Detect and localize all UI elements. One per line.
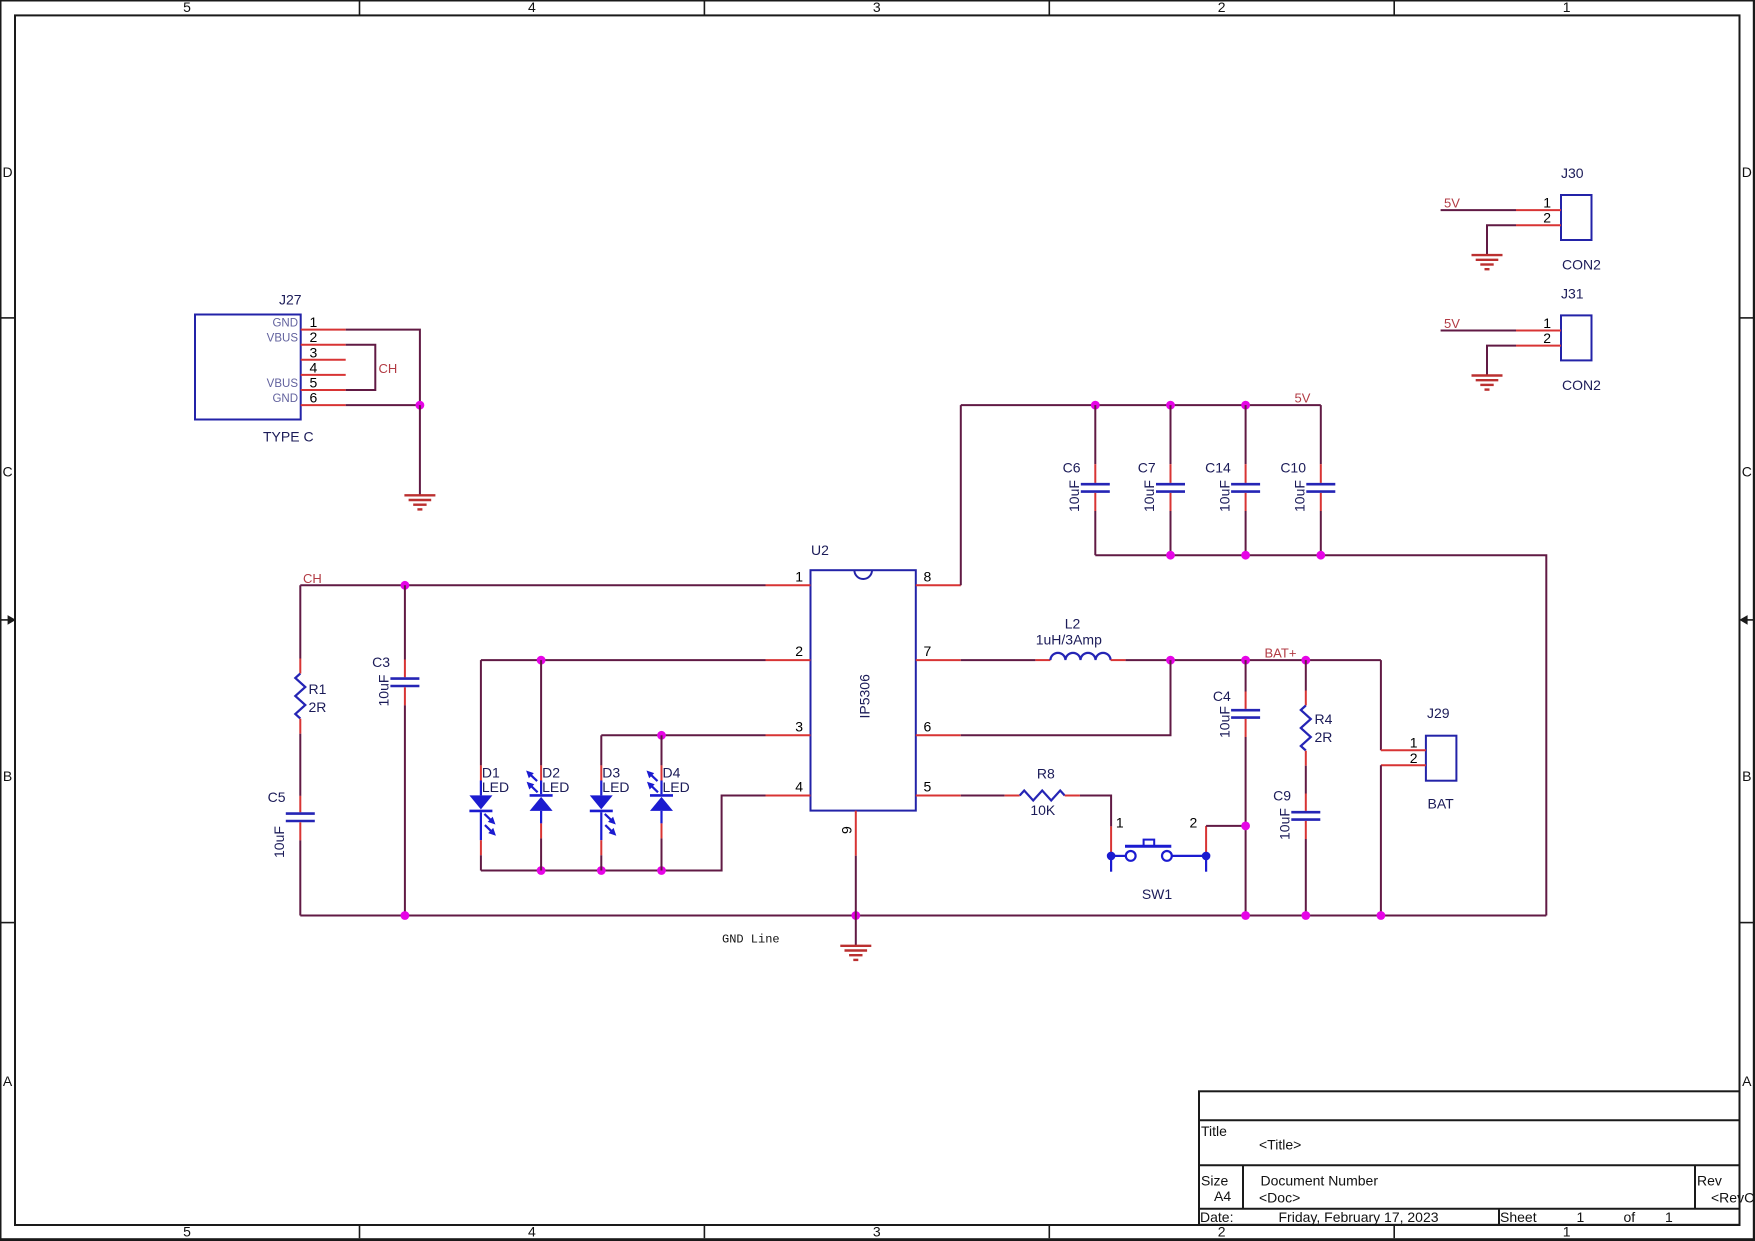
SW1 pin number 2 [1190, 814, 1198, 830]
J27 value label TYPE C [263, 429, 314, 445]
C5 reference designator label [268, 789, 286, 805]
svg-text:BAT: BAT [1428, 796, 1455, 812]
capacitor C5 [286, 796, 315, 841]
J27 pin number 6 [310, 390, 318, 406]
svg-text:C: C [2, 464, 12, 480]
J27 pin 5 stub [301, 389, 346, 391]
svg-text:of: of [1624, 1209, 1636, 1225]
svg-text:4: 4 [528, 1223, 536, 1239]
svg-text:4: 4 [528, 0, 536, 15]
R4 reference designator label [1315, 711, 1333, 727]
junction 5V rail / C7 [1166, 401, 1175, 410]
svg-text:2: 2 [1410, 750, 1418, 766]
junction pin2 line / D2 [537, 656, 546, 665]
U2 reference designator label [811, 542, 829, 558]
net label CH (main) [303, 571, 322, 586]
J27 pin number 1 [310, 314, 318, 330]
junction 5V rail / C6 [1091, 401, 1100, 410]
svg-text:8: 8 [924, 568, 932, 584]
svg-text:1: 1 [1116, 814, 1124, 830]
ground symbol (J31) [1472, 376, 1503, 390]
capacitor C7 [1156, 405, 1185, 555]
net label 5V (at J31) [1444, 316, 1460, 331]
C4 reference designator label [1213, 688, 1231, 704]
capacitor C10 [1306, 405, 1335, 555]
J31 pin 1 stub [1516, 330, 1561, 332]
net label BAT+ [1265, 645, 1297, 660]
U2 pin 5 stub [916, 795, 961, 797]
svg-text:J30: J30 [1561, 165, 1584, 181]
J29 pin number 1 [1410, 735, 1418, 751]
svg-text:3: 3 [873, 1223, 881, 1239]
D4 reference designator label [663, 764, 681, 780]
SW1 pin 2 stub [1205, 826, 1207, 852]
J27 reference designator label [279, 292, 302, 308]
J29 pin 2 stub [1381, 764, 1426, 766]
junction LED bus / D3 [597, 866, 606, 875]
U2 pin 1 stub [766, 584, 811, 586]
svg-text:TYPE C: TYPE C [263, 429, 314, 445]
svg-text:10K: 10K [1030, 802, 1056, 818]
svg-text:<Doc>: <Doc> [1259, 1190, 1300, 1206]
wire U2 pin4 to LED cathode bus [481, 796, 766, 871]
D1 reference designator label [482, 764, 500, 780]
junction J27 GND node [416, 401, 425, 410]
D2 value label LED [542, 779, 569, 795]
wire 5V rail [961, 404, 1321, 406]
J27 pin name GND (pin 1) [272, 318, 298, 330]
svg-text:LED: LED [482, 779, 509, 795]
svg-text:Date:: Date: [1200, 1209, 1233, 1225]
wire J29 pin2 down to GND rail [1380, 765, 1382, 915]
U2 pin number 9 (rotated) [839, 826, 855, 834]
svg-text:C7: C7 [1138, 460, 1156, 476]
svg-text:B: B [3, 768, 12, 784]
svg-text:10uF: 10uF [1216, 480, 1232, 512]
svg-text:1: 1 [1543, 315, 1551, 331]
svg-text:Title: Title [1201, 1123, 1227, 1139]
C14 value label 10uF (rotated) [1216, 480, 1232, 512]
D2 reference designator label [542, 764, 560, 780]
svg-text:2: 2 [1543, 330, 1551, 346]
switch SW1 [1107, 840, 1211, 872]
J27 pin name GND (pin 6) [272, 393, 298, 405]
D3 reference designator label [602, 764, 620, 780]
svg-text:C6: C6 [1063, 460, 1081, 476]
svg-text:3: 3 [873, 0, 881, 15]
C7 value label 10uF (rotated) [1141, 480, 1157, 512]
ground symbol (J27) [404, 495, 435, 509]
net label 5V (rail) [1295, 390, 1311, 405]
J29 pin 1 stub [1381, 749, 1426, 751]
junction BAT+ / R4 [1301, 656, 1310, 665]
capacitor C9 [1291, 794, 1320, 916]
svg-text:J29: J29 [1427, 705, 1450, 721]
svg-text:<Title>: <Title> [1259, 1137, 1301, 1153]
U2 pin 3 stub [766, 734, 811, 736]
C3 value label 10uF (rotated) [376, 675, 392, 707]
svg-text:2: 2 [795, 643, 803, 659]
LED D4 [647, 735, 674, 870]
C14 reference designator label [1205, 460, 1231, 476]
wire CH net to U2 pin1 [300, 584, 765, 586]
svg-text:C: C [1742, 464, 1752, 480]
J30 pin 2 stub [1516, 224, 1561, 226]
J27 pin number 4 [310, 359, 318, 375]
SW1 reference designator label [1142, 886, 1173, 902]
wire CH down to R1 [299, 585, 301, 658]
svg-text:5V: 5V [1444, 316, 1460, 331]
wire R4 to C9 [1305, 766, 1307, 794]
svg-text:1: 1 [1665, 1209, 1673, 1225]
resistor R8 [1005, 791, 1080, 801]
svg-text:10uF: 10uF [1141, 480, 1157, 512]
svg-text:BAT+: BAT+ [1265, 645, 1297, 660]
svg-text:GND: GND [272, 393, 298, 405]
wire U2 pin9 to GND rail [855, 856, 857, 916]
svg-text:J31: J31 [1561, 285, 1584, 301]
J31 reference designator label [1561, 285, 1584, 301]
L2 reference designator label [1065, 615, 1081, 631]
svg-text:C4: C4 [1213, 688, 1231, 704]
svg-text:1: 1 [310, 314, 318, 330]
wire U2 pin2 to D1/D2 anodes [481, 659, 766, 661]
U2 pin 9 stub [855, 811, 857, 856]
U2 pin number 1 [795, 568, 803, 584]
J29 value label BAT [1428, 796, 1455, 812]
svg-text:5V: 5V [1444, 196, 1460, 211]
svg-text:6: 6 [924, 718, 932, 734]
svg-text:5V: 5V [1295, 390, 1311, 405]
svg-text:5: 5 [924, 779, 932, 795]
svg-text:C5: C5 [268, 789, 286, 805]
svg-text:1uH/3Amp: 1uH/3Amp [1036, 632, 1102, 648]
svg-text:2: 2 [1218, 0, 1226, 15]
SW1 pin number 1 [1116, 814, 1124, 830]
connector J31 (CON2) body [1561, 315, 1592, 360]
J30 pin 1 stub [1516, 209, 1561, 211]
wire GND rail [300, 915, 1546, 917]
resistor R4 [1301, 660, 1311, 766]
J30 pin number 2 [1543, 210, 1551, 226]
U2 pin number 3 [795, 718, 803, 734]
wire J27 pin1 to GND node [346, 330, 420, 406]
J27 pin number 5 [310, 375, 318, 391]
net note GND Line [722, 932, 780, 946]
svg-text:1: 1 [1577, 1209, 1585, 1225]
svg-text:IP5306: IP5306 [857, 674, 873, 719]
svg-text:7: 7 [924, 643, 932, 659]
wire U2 pin3 to D3/D4 [601, 734, 765, 736]
U2 pin number 4 [795, 779, 803, 795]
capacitor C4 [1231, 660, 1260, 915]
U2 pin number 7 [924, 643, 932, 659]
svg-text:3: 3 [310, 344, 318, 360]
ground symbol (GND rail) [840, 946, 871, 960]
junction cap bus / C14 [1241, 551, 1250, 560]
SW1 pin 1 stub [1110, 826, 1112, 852]
J27 pin number 3 [310, 344, 318, 360]
L2 value label 1uH/3Amp [1036, 632, 1102, 648]
C5 value label 10uF (rotated) [271, 826, 287, 858]
svg-text:A: A [1742, 1073, 1752, 1089]
C6 value label 10uF (rotated) [1066, 480, 1082, 512]
svg-text:10uF: 10uF [1066, 480, 1082, 512]
wire GND rail to ground symbol [855, 916, 857, 946]
svg-text:LED: LED [542, 779, 569, 795]
svg-text:D: D [2, 164, 12, 180]
U2 value label IP5306 (rotated) [857, 674, 873, 719]
svg-text:CH: CH [303, 571, 322, 586]
J27 pin name VBUS (pin 5) [267, 378, 299, 390]
C9 value label 10uF (rotated) [1277, 808, 1293, 840]
svg-text:2R: 2R [309, 699, 327, 715]
connector J29 (BAT) body [1426, 736, 1457, 781]
junction GND rail / U2 pin9 [851, 911, 860, 920]
svg-text:Sheet: Sheet [1500, 1209, 1537, 1225]
svg-text:Friday, February 17, 2023: Friday, February 17, 2023 [1279, 1209, 1439, 1225]
svg-text:2: 2 [310, 329, 318, 345]
wire GND node down to ground [419, 405, 421, 495]
C10 value label 10uF (rotated) [1292, 480, 1308, 512]
R8 reference designator label [1037, 766, 1055, 782]
connector J30 (CON2) body [1561, 195, 1592, 240]
svg-text:D: D [1742, 164, 1752, 180]
wire capacitor bottom bus [1095, 555, 1546, 915]
svg-text:2R: 2R [1315, 729, 1333, 745]
svg-text:R8: R8 [1037, 766, 1055, 782]
svg-text:U2: U2 [811, 542, 829, 558]
junction cap bus / C10 [1316, 551, 1325, 560]
svg-text:C3: C3 [372, 654, 390, 670]
J31 pin number 2 [1543, 330, 1551, 346]
connector J27 (TYPE C) body [195, 315, 301, 420]
J31 value label CON2 [1562, 377, 1601, 393]
resistor R1 [295, 659, 305, 734]
svg-text:<RevCode>: <RevCode> [1711, 1190, 1755, 1206]
svg-text:J27: J27 [279, 292, 302, 308]
junction cap bus / C7 [1166, 551, 1175, 560]
wire J27 pin6 to GND node [346, 404, 420, 406]
svg-text:9: 9 [839, 826, 855, 834]
R8 value label 10K [1030, 802, 1056, 818]
svg-text:5: 5 [183, 1223, 191, 1239]
svg-text:A4: A4 [1214, 1188, 1231, 1204]
junction GND rail / C9 [1301, 911, 1310, 920]
LED D3 [590, 735, 617, 870]
svg-text:3: 3 [795, 718, 803, 734]
U2 pin number 6 [924, 718, 932, 734]
U2 pin 8 stub [916, 584, 961, 586]
U2 pin 4 stub [766, 795, 811, 797]
C10 reference designator label [1280, 460, 1306, 476]
D4 value label LED [663, 779, 690, 795]
svg-text:10uF: 10uF [271, 826, 287, 858]
J27 pin 1 stub [301, 329, 346, 331]
J30 pin number 1 [1543, 195, 1551, 211]
svg-text:1: 1 [795, 568, 803, 584]
wire 5V to J31 pin1 [1441, 330, 1516, 332]
J29 reference designator label [1427, 705, 1450, 721]
svg-text:2: 2 [1543, 210, 1551, 226]
J27 pin 6 stub [301, 404, 346, 406]
svg-text:CON2: CON2 [1562, 257, 1601, 273]
junction SW1 pin2 / C4 column [1241, 822, 1250, 831]
junction LED bus / D2 [537, 866, 546, 875]
J31 pin number 1 [1543, 315, 1551, 331]
wire L2 to BAT+ corner [1126, 659, 1381, 661]
svg-text:CH: CH [379, 361, 398, 376]
U2 pin 2 stub [766, 659, 811, 661]
svg-text:10uF: 10uF [1292, 480, 1308, 512]
junction GND rail / C4 [1241, 911, 1250, 920]
net label CH (at J27) [379, 361, 398, 376]
junction CH / C3 [401, 581, 410, 590]
svg-text:VBUS: VBUS [267, 333, 299, 345]
svg-text:1: 1 [1410, 735, 1418, 751]
svg-text:Document Number: Document Number [1261, 1173, 1379, 1189]
wire J30 pin2 to ground [1487, 225, 1516, 255]
J27 pin name VBUS (pin 2) [267, 333, 299, 345]
svg-text:4: 4 [310, 359, 318, 375]
R4 value label 2R [1315, 729, 1333, 745]
svg-text:VBUS: VBUS [267, 378, 299, 390]
J27 pin 2 stub [301, 344, 346, 346]
svg-text:GND: GND [272, 318, 298, 330]
wire R1 to C5 [299, 734, 301, 796]
svg-text:R4: R4 [1315, 711, 1333, 727]
svg-text:LED: LED [602, 779, 629, 795]
C7 reference designator label [1138, 460, 1156, 476]
svg-text:B: B [1742, 768, 1751, 784]
R1 value label 2R [309, 699, 327, 715]
J30 value label CON2 [1562, 257, 1601, 273]
ground symbol (J30) [1472, 255, 1503, 269]
svg-text:10uF: 10uF [1216, 706, 1232, 738]
U2 pin 7 stub [916, 659, 961, 661]
wire SW1 pin2 to C4 column [1206, 825, 1246, 827]
svg-text:C14: C14 [1205, 460, 1231, 476]
wire U2 pin5 to R8 [961, 795, 1005, 797]
svg-text:Rev: Rev [1697, 1173, 1722, 1189]
svg-text:C10: C10 [1280, 460, 1306, 476]
svg-text:1: 1 [1563, 0, 1571, 15]
junction LED bus / D4 [657, 866, 666, 875]
U2 pin number 5 [924, 779, 932, 795]
R1 reference designator label [309, 681, 327, 697]
C6 reference designator label [1063, 460, 1081, 476]
svg-text:C9: C9 [1273, 788, 1291, 804]
wire C5 to GND rail [299, 840, 301, 915]
J29 pin number 2 [1410, 750, 1418, 766]
svg-text:Size: Size [1201, 1173, 1228, 1189]
svg-text:10uF: 10uF [376, 675, 392, 707]
capacitor C3 [390, 585, 419, 915]
C9 reference designator label [1273, 788, 1291, 804]
junction 5V rail / C14 [1241, 401, 1250, 410]
J31 pin 2 stub [1516, 345, 1561, 347]
junction BAT+ / C4 [1241, 656, 1250, 665]
C4 value label 10uF (rotated) [1216, 706, 1232, 738]
svg-text:6: 6 [310, 390, 318, 406]
wire J31 pin2 to ground [1487, 346, 1516, 376]
svg-text:5: 5 [183, 0, 191, 15]
wire J27 pin2-pin5 CH bracket [346, 345, 376, 390]
wire BAT+ down to J29 pin1 [1380, 660, 1382, 750]
junction BAT+ / pin6 riser [1166, 656, 1175, 665]
D1 value label LED [482, 779, 509, 795]
svg-text:LED: LED [663, 779, 690, 795]
wire R8 to SW1 pin1 [1080, 796, 1111, 827]
D3 value label LED [602, 779, 629, 795]
C3 reference designator label [372, 654, 390, 670]
svg-text:CON2: CON2 [1562, 377, 1601, 393]
wire 5V to J30 pin1 [1441, 209, 1516, 211]
LED D2 [526, 660, 553, 870]
svg-text:SW1: SW1 [1142, 886, 1173, 902]
LED D1 [469, 660, 496, 870]
J27 pin 3 stub [301, 359, 346, 361]
J30 reference designator label [1561, 165, 1584, 181]
junction GND rail / C3 [401, 911, 410, 920]
wire U2 pin6 riser to BAT+ [961, 660, 1171, 735]
J27 pin 4 stub [301, 374, 346, 376]
svg-text:10uF: 10uF [1277, 808, 1293, 840]
J27 pin number 2 [310, 329, 318, 345]
svg-text:2: 2 [1190, 814, 1198, 830]
capacitor C6 [1081, 405, 1110, 555]
capacitor C14 [1231, 405, 1260, 555]
U2 pin number 2 [795, 643, 803, 659]
net label 5V (at J30) [1444, 196, 1460, 211]
U2 pin number 8 [924, 568, 932, 584]
svg-text:1: 1 [1543, 195, 1551, 211]
junction GND rail / J29 pin2 [1377, 911, 1386, 920]
svg-text:5: 5 [310, 375, 318, 391]
svg-text:4: 4 [795, 779, 803, 795]
svg-text:R1: R1 [309, 681, 327, 697]
svg-text:GND Line: GND Line [722, 932, 780, 946]
junction pin3 line / D4 [657, 731, 666, 740]
wire U2 pin8 up to 5V rail [960, 405, 962, 585]
svg-text:L2: L2 [1065, 615, 1081, 631]
inductor L2 [961, 653, 1126, 660]
IC U2 body [811, 570, 916, 810]
U2 pin 6 stub [916, 734, 961, 736]
svg-text:A: A [3, 1073, 13, 1089]
